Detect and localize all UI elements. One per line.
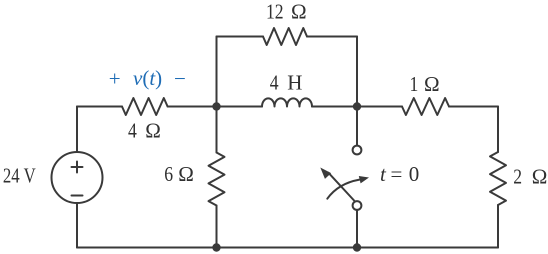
- wire left vertical source bottom: [76, 203, 78, 248]
- switch arm arrowhead: [320, 168, 331, 179]
- resistor R 1ohm: [402, 98, 449, 115]
- svg-text:−: −: [174, 67, 186, 91]
- wire 4ohm to node A: [168, 106, 217, 108]
- svg-text:1: 1: [410, 74, 419, 97]
- wire node B down to switch: [356, 107, 358, 146]
- wire switch to bottom rail: [356, 210, 358, 248]
- node B dot: [353, 102, 361, 110]
- svg-text:Ω: Ω: [424, 72, 440, 96]
- wire inductor to node B: [312, 106, 357, 108]
- wire top rail down to node B: [356, 37, 358, 107]
- source minus sign: [72, 195, 83, 197]
- svg-text:4: 4: [128, 120, 137, 143]
- wire top rail right: [307, 36, 357, 38]
- svg-text:=: =: [391, 162, 403, 186]
- wire node A to inductor: [217, 106, 263, 108]
- wire 6ohm to bottom rail: [216, 206, 218, 248]
- wire left horizontal from source top to node A: [77, 106, 122, 108]
- node A bottom dot: [212, 243, 220, 251]
- svg-text:Ω: Ω: [178, 162, 194, 186]
- svg-text:2: 2: [513, 166, 522, 189]
- node B bottom dot: [353, 243, 361, 251]
- svg-text:H: H: [287, 71, 302, 95]
- svg-text:+: +: [109, 67, 121, 91]
- svg-text:4: 4: [270, 72, 279, 95]
- wire top rail left: [217, 36, 264, 38]
- svg-text:24 V: 24 V: [3, 165, 36, 188]
- wire left vertical source top: [76, 107, 78, 153]
- voltage source 24V circle: [52, 152, 103, 203]
- wire node A up to top rail: [216, 37, 218, 107]
- svg-text:12: 12: [266, 1, 284, 24]
- wire bottom rail: [77, 247, 498, 249]
- svg-text:0: 0: [409, 162, 420, 186]
- switch contact bottom circle: [353, 201, 362, 210]
- switch arm: [329, 173, 356, 202]
- wire right rail bottom: [497, 205, 499, 248]
- switch motion arrowhead: [359, 176, 369, 183]
- source plus sign: [72, 162, 83, 173]
- wire 1ohm to right rail: [449, 106, 498, 108]
- wire node B to 1ohm: [357, 106, 402, 108]
- resistor R 4ohm: [122, 98, 168, 115]
- svg-text:6: 6: [164, 164, 173, 187]
- switch contact top circle: [353, 146, 362, 155]
- svg-text:Ω: Ω: [145, 119, 161, 143]
- svg-text:v(t): v(t): [133, 66, 162, 90]
- resistor R 2ohm vertical: [490, 152, 506, 205]
- resistor R 12ohm: [263, 28, 307, 45]
- svg-text:Ω: Ω: [532, 165, 548, 189]
- switch motion arc: [327, 180, 359, 199]
- resistor R 6ohm vertical: [209, 153, 225, 206]
- wire right rail top: [497, 107, 499, 153]
- svg-text:Ω: Ω: [291, 0, 307, 23]
- inductor L 4H: [262, 98, 312, 106]
- wire node A down to 6ohm: [216, 107, 218, 153]
- node A dot: [212, 102, 220, 110]
